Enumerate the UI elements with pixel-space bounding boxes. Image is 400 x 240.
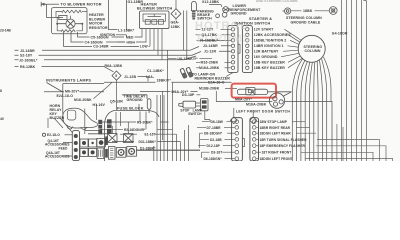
label TO LAMP-ON REMINDER BUZZER xyxy=(192,73,230,81)
connector block xyxy=(59,15,67,19)
relay socket 2 xyxy=(127,147,137,157)
bottom connector D body xyxy=(250,118,259,161)
ground screw lower reinforcement xyxy=(222,7,228,18)
ring terminal xyxy=(283,8,291,14)
fuse F1 xyxy=(108,134,117,143)
long horizontal 18BK/Y bus xyxy=(104,81,232,83)
connector C row lead wires xyxy=(197,122,235,159)
arrow to blower motor xyxy=(41,2,59,7)
wire vertical from relay xyxy=(85,104,97,134)
wires from resistor to connectors C5/C4/C3 xyxy=(78,34,125,37)
fan wires from steering column xyxy=(292,57,331,161)
wire D3-18P stub xyxy=(197,94,201,96)
wire R3-20BK xyxy=(100,121,169,123)
wires right of diamond xyxy=(184,11,187,58)
stop lamp switch xyxy=(179,99,208,111)
wire stop lamp feed corner xyxy=(285,102,332,162)
paper noise overlay xyxy=(0,0,400,161)
switch contacts xyxy=(143,14,166,24)
wire M6-20Y xyxy=(44,91,104,93)
heater blower motor resistor box xyxy=(52,8,88,34)
fuse F2 xyxy=(124,134,133,143)
door jamb switch left xyxy=(180,68,187,78)
wire LOW xyxy=(130,45,150,47)
label HEATER BLOWER MOTOR RESISTOR xyxy=(89,13,108,30)
ring terminal E2 xyxy=(42,133,45,136)
wire bus R6-12BK xyxy=(15,67,114,72)
label Q4-16T ACCESSORIES FEED xyxy=(45,139,70,150)
harness lines right group xyxy=(342,0,367,161)
horn relay bracket outline xyxy=(63,108,98,129)
resistor element bottom xyxy=(61,30,75,32)
wire diagonal to cluster xyxy=(94,82,113,98)
wire E2-18-O stub xyxy=(65,134,73,136)
label STOP LAMP SWITCH xyxy=(180,109,202,116)
switch pins xyxy=(146,29,162,60)
connector pins dark xyxy=(98,120,102,135)
parking brake switch xyxy=(191,1,196,19)
blower motor symbol xyxy=(56,16,83,29)
relay socket 1 xyxy=(116,148,126,158)
label STEERING COLUMN xyxy=(304,45,323,53)
ignition switch connector B xyxy=(242,26,252,73)
label rows connector B right xyxy=(254,28,291,70)
wire from stop switch down xyxy=(205,111,210,122)
battery feed block xyxy=(108,147,115,160)
wire to lamp-on reminder buzzer xyxy=(226,73,233,77)
wire to diamonds xyxy=(234,108,253,117)
key-in buzzer connector inside highlight xyxy=(237,88,291,97)
left front door switch xyxy=(269,93,284,108)
wire D31-18BK xyxy=(112,141,181,143)
fuse block outline xyxy=(105,111,159,162)
fan wires into right ignition labels xyxy=(281,29,303,68)
wire 18BK to bolt xyxy=(291,10,329,12)
bottom connector C body xyxy=(232,118,245,161)
wire E2A-18-O run xyxy=(196,81,232,83)
label rows connector D right xyxy=(260,120,308,161)
bottom right elbow wires xyxy=(292,122,393,161)
splice diamond left xyxy=(230,117,237,124)
label HORN RELAY KEY BUZZER xyxy=(50,104,65,120)
red highlight box xyxy=(232,84,276,98)
label Q4A-16T ACCESSORIES xyxy=(45,151,70,159)
splice diamond 3 xyxy=(171,0,181,21)
label PARKING BRAKE SWITCH xyxy=(197,10,214,21)
splice diamond 5 xyxy=(112,71,121,110)
accessory feed connector xyxy=(72,131,79,161)
grommet xyxy=(216,14,220,18)
splice diamond right xyxy=(250,117,257,124)
fuse block dark cells xyxy=(80,131,108,159)
wire row upper labels xyxy=(196,29,232,40)
wire rows into connector A lower xyxy=(196,62,231,68)
fuse wires up xyxy=(112,104,146,134)
wire HIGH xyxy=(118,41,126,43)
wire bus J2-16DBL xyxy=(15,41,232,60)
wire U6-18BK/Y xyxy=(168,58,212,60)
diagonal feed wires xyxy=(48,118,72,133)
wire IGNITION row xyxy=(116,34,127,36)
wire M16B-20BK into red box xyxy=(225,88,237,90)
wire E1-16T xyxy=(120,133,177,135)
door jamb switch right xyxy=(186,67,193,77)
wire 18BK heavy run xyxy=(136,149,200,151)
wire M6A-20Y run xyxy=(140,90,198,92)
label STEERING COLUMN GROUND CABLE xyxy=(286,16,322,24)
hook top of harness xyxy=(364,0,367,1)
label rows connector A left xyxy=(199,28,220,70)
wire resistor top to box xyxy=(56,12,62,18)
wire M16A-20BK to door switch xyxy=(216,91,272,102)
label rows connector C left xyxy=(204,120,224,161)
label LOWER REINFORCEMENT GROUND xyxy=(229,4,262,16)
cut-off fragments at left edge xyxy=(0,29,11,122)
connector D row stubs xyxy=(256,122,261,159)
time delay ground strap xyxy=(122,95,151,113)
resistor element top xyxy=(62,10,81,13)
steering column xyxy=(298,35,325,62)
label G6A-12BK xyxy=(171,20,181,28)
wire bus J3-14BR xyxy=(15,46,232,51)
wire q4 stubs xyxy=(63,143,72,157)
wire J1-12B stub xyxy=(138,77,149,82)
wire from arrow into resistor box xyxy=(47,4,59,17)
heater blower switch box xyxy=(140,11,170,29)
wire R2-16DGN/R xyxy=(100,128,173,130)
wire G1-18BR drop xyxy=(109,0,118,30)
ignition switch connector A xyxy=(228,26,240,73)
middle harness verticals xyxy=(154,50,189,161)
wire bus S2-18Y xyxy=(15,51,232,55)
wire vertical feed xyxy=(126,0,128,30)
horn relay inner xyxy=(67,110,76,120)
label TIME DELAY GROUND xyxy=(124,95,146,102)
bolt head steering column ground xyxy=(329,7,337,15)
instrument lamps bracket xyxy=(47,83,105,121)
wire X12-18BK elbow xyxy=(209,4,222,7)
wire MED xyxy=(135,29,143,37)
